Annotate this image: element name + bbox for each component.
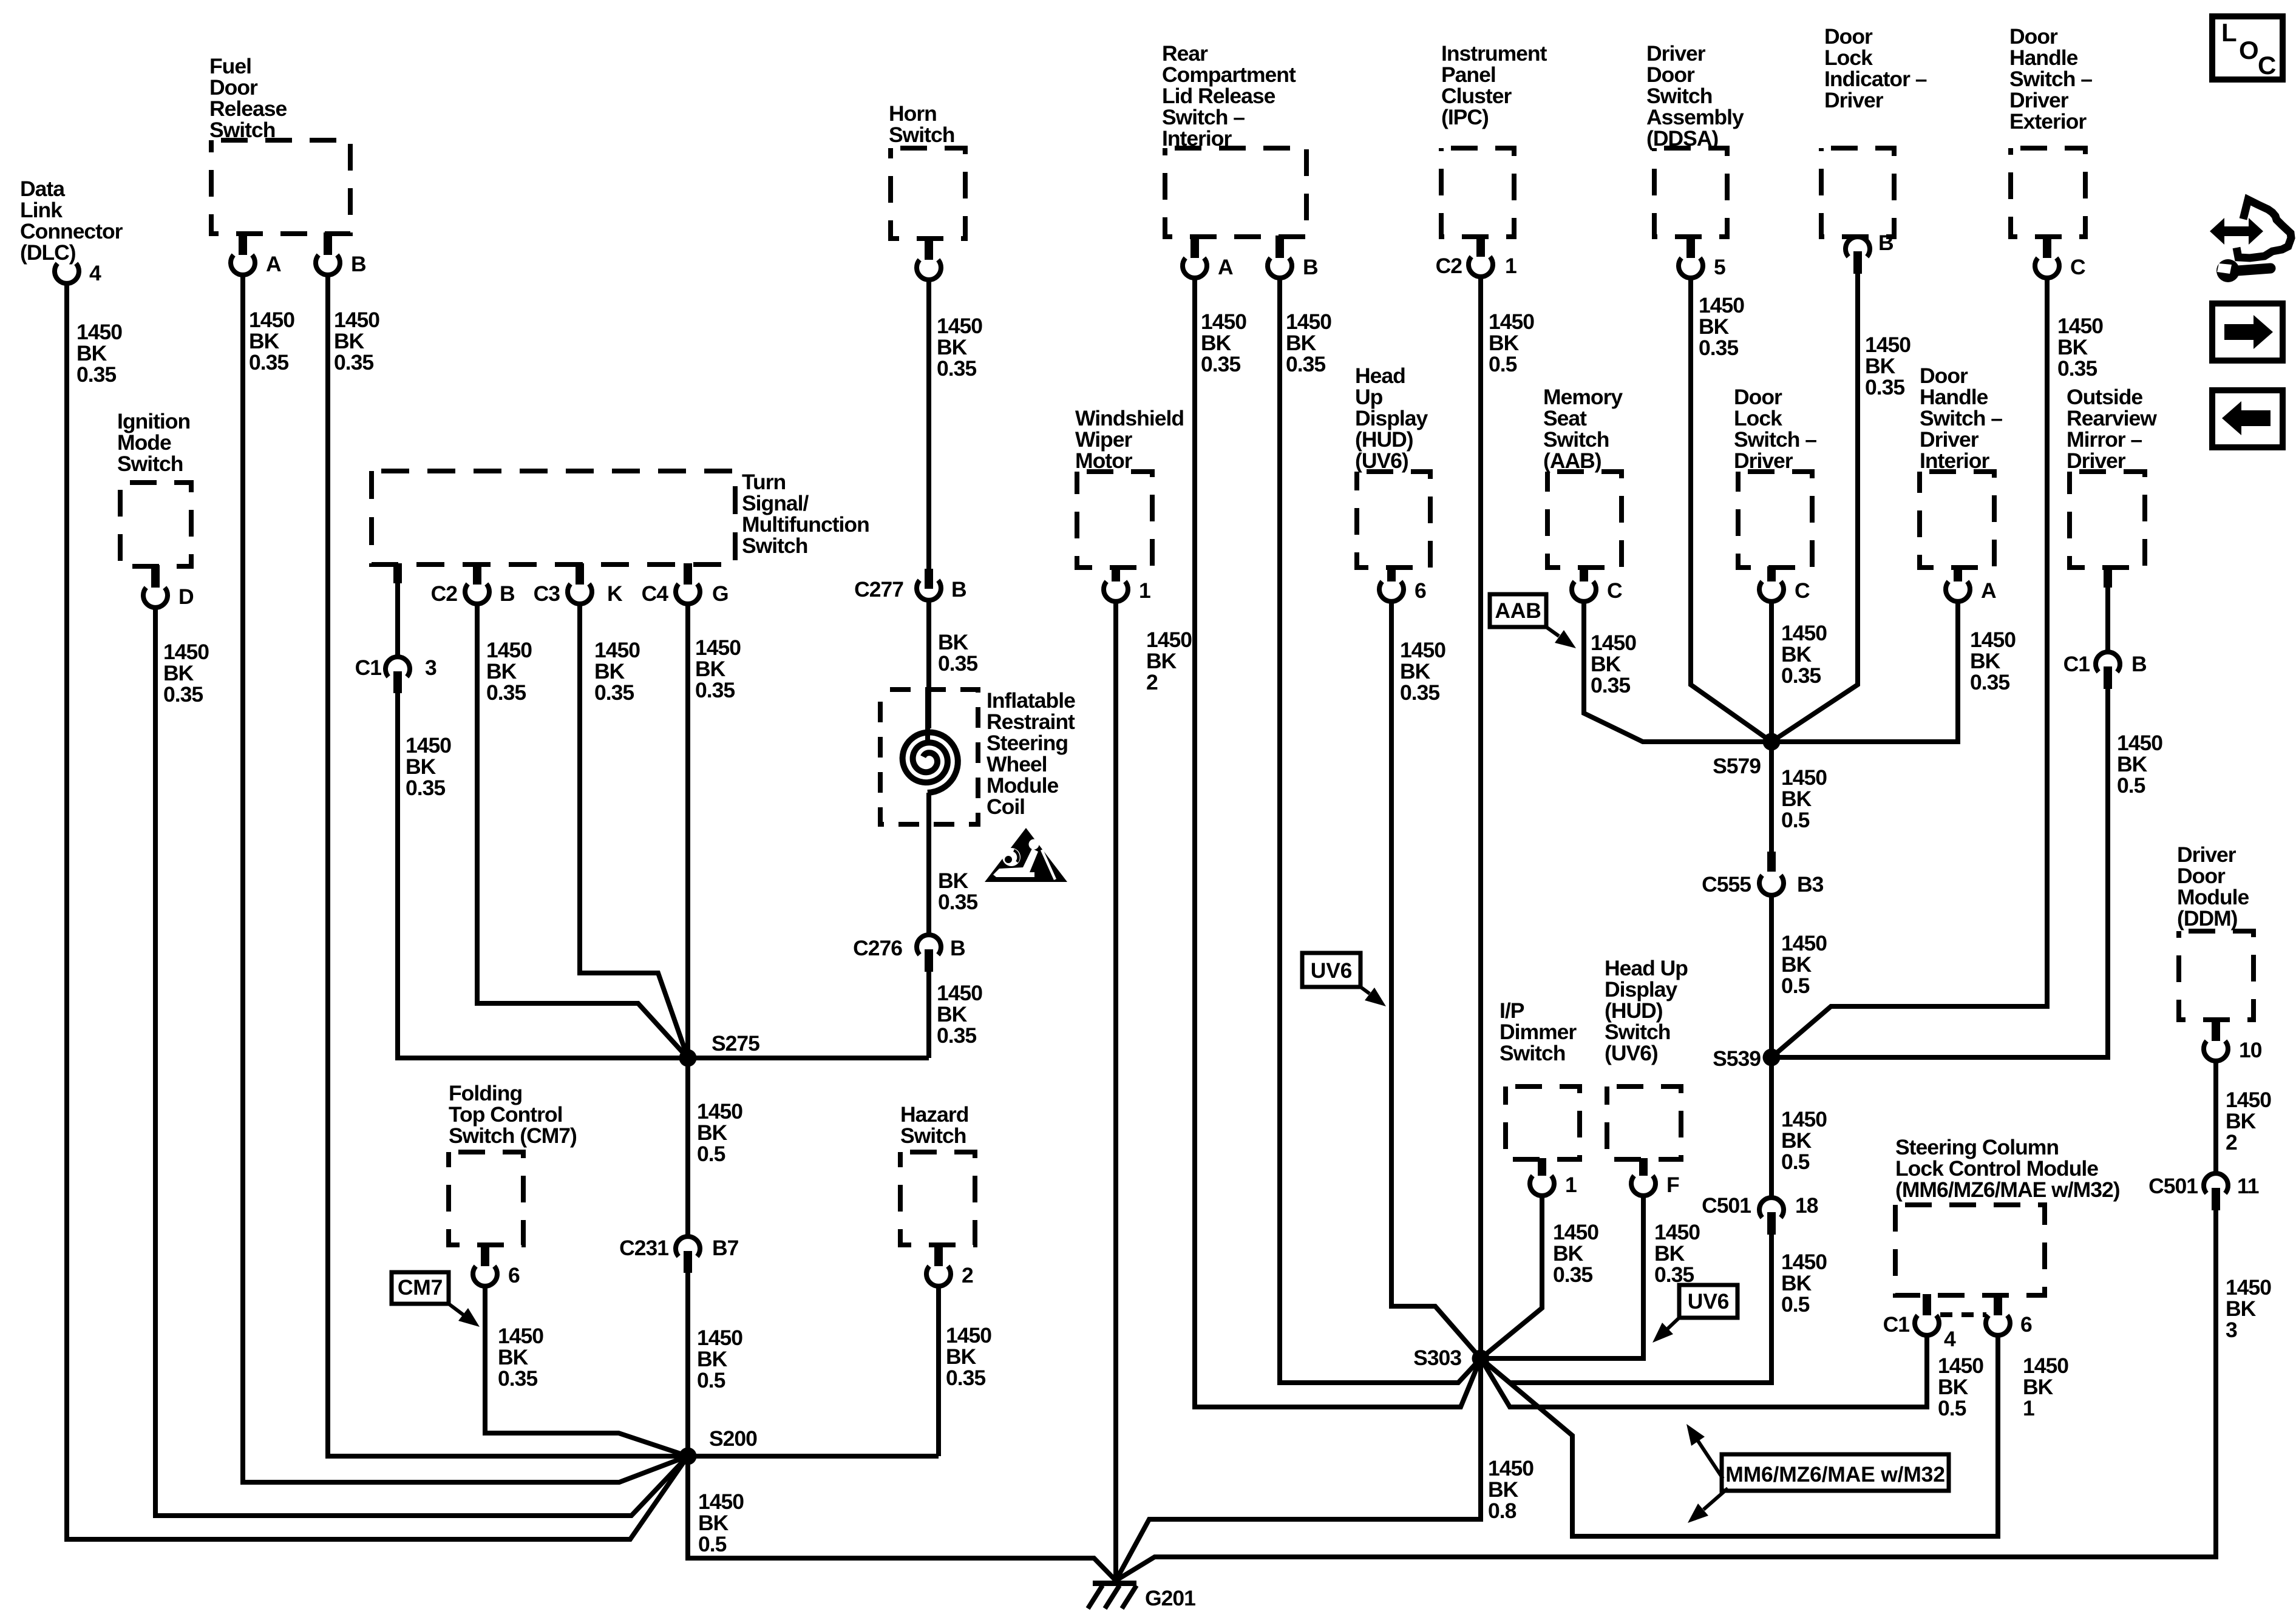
- component label: Fuel Door Release Switch: [209, 54, 287, 142]
- connector C555 stub: [1767, 852, 1776, 872]
- wire label BK 0.35 (coil-C276): [938, 869, 977, 914]
- Turn Signal pin B stub: [473, 563, 481, 585]
- component box: Door Lock Switch - Driver: [1738, 472, 1812, 568]
- svg-text:B: B: [351, 252, 366, 276]
- svg-text:S200: S200: [709, 1426, 757, 1451]
- wire label 1450 BK 0.35 (DLS C): [1781, 621, 1827, 688]
- splice label S539: [1713, 1046, 1761, 1071]
- IPC pin 1 cup: [1469, 257, 1493, 277]
- svg-text:B: B: [951, 577, 966, 602]
- wire label 1450 BK 0.5 (S539-C501): [1781, 1107, 1827, 1174]
- Rear Compartment switch pin B stub: [1275, 236, 1284, 258]
- svg-text:2: 2: [962, 1263, 973, 1287]
- pin B3 label: [1797, 872, 1824, 897]
- icon: right arrow box: [2212, 303, 2283, 361]
- wire DHI-A to S579, 1450 BK 0.35: [1771, 601, 1958, 742]
- svg-text:AAB: AAB: [1495, 598, 1541, 623]
- component label: Turn Signal/Multifunction Switch: [742, 470, 869, 558]
- svg-text:MM6/MZ6/MAE w/M32: MM6/MZ6/MAE w/M32: [1725, 1462, 1945, 1486]
- connector label C2 (IPC): [1436, 254, 1462, 278]
- connector label C3: [534, 581, 560, 606]
- splice label S275: [712, 1031, 759, 1056]
- Ignition Mode Switch pin D label: [178, 585, 194, 609]
- wire AAB-C to S579, 1450 BK 0.35: [1584, 601, 1771, 742]
- Folding Top Control Switch pin 6 label: [508, 1263, 520, 1287]
- splice label S303: [1413, 1346, 1461, 1370]
- wire C501-18 to S303, 1450 BK 0.5: [1481, 1233, 1771, 1383]
- pin 3 label: [425, 656, 436, 680]
- wire label 1450 BK 0.35 (AAB C): [1591, 631, 1636, 697]
- boxed label MM6/MZ6/MAE w/M32: [1722, 1454, 1949, 1491]
- svg-text:F: F: [1666, 1173, 1679, 1197]
- connector label C501: [1702, 1193, 1751, 1218]
- svg-text:CM7: CM7: [398, 1275, 443, 1300]
- svg-text:C1: C1: [355, 656, 382, 680]
- svg-text:1: 1: [1139, 578, 1150, 603]
- wire label 1450 BK 0.35 (C276): [937, 981, 982, 1048]
- component label: Data Link Connector (DLC): [20, 177, 123, 265]
- DDM pin 10 stub: [2212, 1019, 2220, 1041]
- connector label C231: [619, 1236, 668, 1260]
- wire label 1450 BK 0.35 (HUD 6): [1400, 638, 1445, 705]
- connector C1 pin3 stub: [393, 671, 402, 693]
- pin 4 label: [89, 261, 101, 285]
- Door Handle Exterior pin C label: [2070, 255, 2085, 279]
- component box: Ignition Mode Switch: [120, 483, 191, 566]
- wire DDSA-5 to S579, 1450 BK 0.35: [1691, 276, 1771, 742]
- wire label 1450 BK 0.35 (RearComp B): [1286, 310, 1331, 376]
- svg-text:5: 5: [1714, 255, 1725, 279]
- svg-text:A: A: [266, 252, 281, 276]
- component label: Windshield Wiper Motor: [1075, 406, 1184, 473]
- svg-text:S303: S303: [1413, 1346, 1461, 1370]
- svg-text:6: 6: [1415, 578, 1426, 603]
- wire DLS-C to S579, 1450 BK 0.35: [1769, 601, 1774, 742]
- component label: Door Handle Switch - Driver Exterior: [2009, 24, 2092, 134]
- component box: Steering Column Lock Control Module: [1895, 1205, 2045, 1295]
- boxed label UV6 (upper): [1302, 953, 1360, 987]
- svg-text:S579: S579: [1713, 754, 1761, 778]
- wire S275 to C276 branch: [688, 1056, 929, 1060]
- svg-text:C: C: [1607, 578, 1622, 603]
- wire coil to C276, BK 0.35: [926, 793, 931, 935]
- connector C501 pin 18 (cap): [1759, 1198, 1784, 1218]
- wire label 1450 BK 0.5 (C555-S539): [1781, 931, 1827, 998]
- Door Handle Interior pin A cup: [1946, 581, 1970, 602]
- component label: Memory Seat Switch (AAB): [1543, 385, 1623, 473]
- svg-text:C3: C3: [534, 581, 560, 606]
- wire Horn to C277, 1450 BK 0.35: [926, 278, 931, 571]
- wire label 1450 BK 0.5 (ORM): [2117, 731, 2162, 798]
- svg-text:B: B: [2131, 652, 2147, 676]
- component label: Driver Door Switch Assembly (DDSA): [1646, 41, 1744, 151]
- airbag warning triangle: [985, 828, 1067, 882]
- Folding Top Control Switch pin 6 stub: [481, 1244, 489, 1266]
- Fuel Door Release Switch pin A cup: [231, 255, 255, 275]
- component label: Inflatable Restraint Steering Wheel Module Coil: [987, 688, 1075, 819]
- I/P Dimmer Switch pin 1 stub: [1538, 1158, 1546, 1176]
- ground label G201: [1145, 1586, 1195, 1610]
- splice S539: [1763, 1049, 1781, 1066]
- wire label BK 0.35 (C277-coil): [938, 630, 977, 676]
- connector C555 pin B3 (cup): [1759, 875, 1784, 895]
- component box: Driver Door Module (DDM): [2179, 931, 2254, 1020]
- component label: Head Up Display (HUD) Switch (UV6): [1605, 956, 1688, 1065]
- SCLCM pin 6 cup: [1986, 1315, 2010, 1335]
- arrow AAB to wire: [1546, 627, 1576, 648]
- component box: Outside Rearview Mirror - Driver: [2070, 472, 2145, 568]
- svg-text:4: 4: [89, 261, 101, 285]
- Memory Seat Switch pin C label: [1607, 578, 1622, 603]
- component label: Outside Rearview Mirror - Driver: [2067, 385, 2157, 473]
- DDM pin 10 label: [2239, 1038, 2262, 1062]
- svg-text:C231: C231: [619, 1236, 668, 1260]
- svg-text:B3: B3: [1797, 872, 1824, 897]
- component box: Windshield Wiper Motor: [1077, 472, 1152, 568]
- HUD Switch pin F cup: [1631, 1176, 1656, 1196]
- Turn Signal pin K cup: [568, 584, 592, 604]
- splice S579: [1763, 733, 1781, 751]
- component label: Hazard Switch: [900, 1102, 968, 1148]
- Horn Switch pin stub: [925, 237, 933, 260]
- component box: Door Lock Indicator: [1821, 148, 1894, 237]
- component label: I/P Dimmer Switch: [1500, 998, 1577, 1065]
- Rear Compartment switch pin B label: [1303, 255, 1318, 279]
- splice S275: [679, 1049, 697, 1067]
- Memory Seat Switch pin C cup: [1572, 581, 1596, 602]
- connector C277 stub: [925, 569, 933, 589]
- component box: Folding Top Control Switch: [449, 1152, 523, 1245]
- component box: Memory Seat Switch: [1547, 472, 1622, 568]
- arrow UV6 to wire (lower): [1652, 1318, 1679, 1343]
- Rear Compartment switch pin A cup: [1183, 258, 1207, 278]
- SCLCM pin 4 stub: [1923, 1294, 1931, 1315]
- Fuel Door Release Switch pin B stub: [324, 232, 332, 255]
- pin 18 label: [1795, 1193, 1818, 1218]
- wire label 1450 BK 0.35 (Hazard 2): [946, 1323, 991, 1390]
- Windshield Wiper Motor pin 1 cup: [1104, 581, 1128, 602]
- wire Hazard-2 to S200, 1450 BK 0.35: [936, 1284, 941, 1456]
- wire label 1450 BK 0.35 (DHE C): [2057, 314, 2103, 381]
- Rear Compartment switch pin B cup: [1268, 258, 1292, 278]
- wire Fuel A to S200, 1450 BK 0.35: [243, 273, 688, 1482]
- wire label 1450 BK 0.35 (Ignition D): [163, 640, 209, 707]
- wire label 1450 BK 2 (WWM): [1146, 628, 1192, 694]
- arrow UV6 to HUD wire: [1360, 987, 1386, 1006]
- svg-text:A: A: [1218, 255, 1233, 279]
- svg-text:3: 3: [425, 656, 436, 680]
- connector C231 pin B7 (cap): [676, 1236, 700, 1256]
- wire label 1450 BK 3 (C501-11): [2226, 1275, 2271, 1342]
- Door Lock Switch pin C label: [1795, 578, 1810, 603]
- I/P Dimmer Switch pin 1 cup: [1530, 1176, 1554, 1196]
- svg-text:B: B: [500, 581, 515, 606]
- wire Dimmer-1 to S303, 1450 BK 0.35: [1481, 1195, 1542, 1358]
- wire SCLCM-6 to S303, 1450 BK 1: [1481, 1335, 1998, 1536]
- coil spiral symbol: [903, 732, 958, 793]
- Door Handle Interior pin A stub: [1954, 566, 1962, 581]
- component box: Fuel Door Release Switch: [211, 140, 350, 234]
- svg-text:6: 6: [508, 1263, 520, 1287]
- component box: IPC: [1441, 148, 1514, 237]
- component box: coil: [880, 690, 978, 824]
- wire label 1450 BK 0.35 (RearComp A): [1201, 310, 1246, 376]
- wire label 1450 BK 0.35 (CM7-6): [498, 1324, 543, 1391]
- svg-text:C501: C501: [2148, 1174, 2198, 1198]
- Fuel Door Release Switch pin A stub: [239, 232, 247, 255]
- connector C276 pin B (cap): [917, 935, 941, 955]
- Windshield Wiper Motor pin 1 stub: [1112, 566, 1120, 581]
- component label: Steering Column Lock Control Module (MM6/MZ6/MAE w/M32): [1895, 1135, 2120, 1202]
- wire Turn Signal pin3 to C1 connector: [395, 581, 400, 657]
- boxed label AAB: [1490, 594, 1546, 627]
- HUD Switch pin F stub: [1639, 1158, 1648, 1176]
- wire label 1450 BK 0.5 (C501-18): [1781, 1250, 1827, 1317]
- wire label 1450 BK 0.35 (HUD F): [1654, 1220, 1700, 1287]
- Turn Signal pin G cup: [676, 584, 700, 604]
- component box: Turn Signal/Multifunction Switch: [372, 471, 735, 564]
- Folding Top Control Switch pin 6 cup: [473, 1266, 497, 1286]
- wire ORM C1-B to S539, 1450 BK 0.5: [1771, 688, 2108, 1057]
- wire label 1450 BK 0.35 (C1-3): [406, 733, 451, 800]
- wire C501-11 to G201, 1450 BK 3: [1116, 1209, 2216, 1581]
- wire RearComp B to S303, 1450 BK 0.35: [1280, 276, 1481, 1383]
- svg-text:C1: C1: [1883, 1312, 1910, 1337]
- svg-text:O: O: [2239, 36, 2259, 64]
- component box: I/P Dimmer Switch: [1506, 1086, 1580, 1159]
- DDSA pin 5 stub: [1686, 236, 1695, 258]
- wire label 1450 BK 0.35 (C4-G): [695, 636, 741, 702]
- component label: Head Up Display (HUD)(UV6): [1355, 364, 1428, 473]
- Horn Switch pin cup: [917, 260, 941, 280]
- icon: LOC box: [2212, 16, 2283, 80]
- splice S200: [679, 1448, 697, 1465]
- svg-text:L: L: [2221, 18, 2237, 47]
- HUD pin 6 cup: [1379, 581, 1404, 602]
- svg-text:C2: C2: [1436, 254, 1462, 278]
- ground G201 symbol: [1088, 1581, 1136, 1609]
- component box: Horn Switch: [891, 148, 965, 239]
- HUD pin 6 stub: [1387, 566, 1396, 581]
- connector C276 stub: [925, 949, 933, 972]
- wire C1-3 to S275, 1450 BK 0.35: [398, 692, 688, 1058]
- arrow MM6 label to SCLCM-6 wire: [1688, 1488, 1728, 1523]
- wire S200 to G201, 1450 BK 0.5: [688, 1465, 1116, 1581]
- arrow CM7 to wire: [449, 1304, 480, 1327]
- connector label C277: [854, 577, 903, 602]
- Fuel Door Release Switch pin A label: [266, 252, 281, 276]
- Hazard Switch pin 2 cup: [926, 1266, 951, 1286]
- pin 11 label: [2237, 1174, 2259, 1198]
- wire S303 to G201, 1450 BK 0.8: [1116, 1367, 1481, 1581]
- pin B label (ORM): [2131, 652, 2147, 676]
- connector label C555: [1702, 872, 1751, 897]
- connector C231 stub: [684, 1251, 692, 1273]
- Hazard Switch pin 2 stub: [934, 1244, 943, 1266]
- svg-text:C: C: [2070, 255, 2085, 279]
- wire RearComp A to S303, 1450 BK 0.35: [1195, 276, 1481, 1407]
- component box: Door Handle Switch - Driver Interior: [1920, 472, 1994, 568]
- wire label 1450 BK 0.35 (DLC): [76, 320, 122, 387]
- svg-text:A: A: [1981, 578, 1996, 603]
- connector C1 pin B (cap): [2096, 652, 2120, 672]
- component box: HUD Switch (UV6): [1607, 1086, 1681, 1159]
- wire label 1450 BK 1 (SCLCM 6): [2023, 1354, 2068, 1420]
- svg-text:UV6: UV6: [1311, 958, 1352, 983]
- ORM pin stub: [2104, 566, 2112, 588]
- wire Fuel B to S200, 1450 BK 0.35: [328, 273, 688, 1456]
- boxed label UV6 (lower): [1679, 1285, 1737, 1318]
- component label: Folding Top Control Switch (CM7): [449, 1081, 577, 1148]
- svg-text:C4: C4: [642, 581, 669, 606]
- wire label 1450 BK 0.5 (S579-C555): [1781, 765, 1827, 832]
- wire label 1450 BK 0.35 (DHI A): [1970, 628, 2016, 694]
- svg-text:S539: S539: [1713, 1046, 1761, 1071]
- svg-text:10: 10: [2239, 1038, 2262, 1062]
- wire CM7-6 to S200, 1450 BK 0.35: [485, 1284, 688, 1456]
- svg-text:B7: B7: [712, 1236, 739, 1260]
- pin B7 label: [712, 1236, 739, 1260]
- svg-text:G201: G201: [1145, 1586, 1195, 1610]
- DDM pin 10 cup: [2204, 1041, 2228, 1061]
- wire label 1450 BK 2 (DDM 10): [2226, 1088, 2271, 1154]
- wire S579 to C555, 1450 BK 0.5: [1769, 750, 1774, 852]
- pin 6 label (SCLCM): [2020, 1312, 2032, 1337]
- component label: Door Handle Switch - Driver Interior: [1920, 364, 2002, 473]
- svg-text:C277: C277: [854, 577, 903, 602]
- wire label 1450 BK 0.35 (DLI B): [1865, 333, 1911, 399]
- component box: HUD (UV6): [1357, 472, 1430, 568]
- svg-text:K: K: [607, 581, 623, 606]
- svg-text:C2: C2: [431, 581, 458, 606]
- svg-text:18: 18: [1795, 1193, 1818, 1218]
- Turn Signal pin K stub: [576, 563, 584, 585]
- component box: Rear Compartment Lid Release Switch: [1165, 148, 1306, 237]
- svg-text:D: D: [178, 585, 194, 609]
- pin 1 label (IPC): [1505, 254, 1517, 278]
- connector C1 pin 3 (cap): [385, 657, 410, 677]
- boxed label CM7: [392, 1272, 449, 1304]
- component box: DDSA: [1654, 148, 1727, 237]
- HUD Switch pin F label: [1666, 1173, 1679, 1197]
- wire label 1450 BK 0.35 (C2-B): [486, 638, 532, 705]
- Turn Signal pin B cup: [465, 584, 489, 604]
- Hazard Switch pin 2 label: [962, 1263, 973, 1287]
- component label: Horn Switch: [889, 101, 954, 147]
- connector label C276: [853, 936, 902, 960]
- svg-text:B: B: [1878, 231, 1894, 255]
- Rear Compartment switch pin A stub: [1190, 236, 1199, 258]
- connector C501 pin 11 (cap): [2204, 1173, 2228, 1193]
- component box: Hazard Switch: [900, 1152, 975, 1245]
- Fuel Door Release Switch pin B label: [351, 252, 366, 276]
- Ignition Mode Switch pin D stub: [151, 565, 160, 588]
- wire C555 to S539, 1450 BK 0.5: [1769, 895, 1774, 1057]
- wire into coil top: [925, 690, 930, 744]
- connector DLC pin 4 cup: [55, 263, 79, 283]
- wire HUD-6 to S303, 1450 BK 0.35: [1391, 601, 1481, 1358]
- pin G label: [712, 581, 729, 606]
- I/P Dimmer Switch pin 1 label: [1565, 1173, 1577, 1197]
- Door Lock Switch pin C cup: [1759, 581, 1784, 602]
- component label: Ignition Mode Switch: [117, 409, 190, 476]
- Door Lock Indicator pin B stub: [1853, 251, 1862, 274]
- Ignition Mode Switch pin D cup: [143, 588, 168, 608]
- wire DDM-10 to C501-11, 1450 BK 2: [2213, 1059, 2218, 1173]
- svg-text:G: G: [712, 581, 729, 606]
- splice label S579: [1713, 754, 1761, 778]
- connector label C4: [642, 581, 669, 606]
- connector label C1 (SCLCM): [1883, 1312, 1910, 1337]
- connector C501-18 stub: [1767, 1212, 1776, 1235]
- Door Handle Interior pin A label: [1981, 578, 1996, 603]
- svg-text:B: B: [950, 936, 965, 960]
- wire C277 to coil, BK 0.35: [926, 600, 931, 728]
- wire S200 to Hazard pin 2: [688, 1454, 939, 1459]
- Windshield Wiper Motor pin 1 label: [1139, 578, 1150, 603]
- wire C3-K to S275, 1450 BK 0.35: [580, 604, 688, 1058]
- svg-text:B: B: [1303, 255, 1318, 279]
- pin B label (DLI): [1878, 231, 1894, 255]
- wire DHE-C to S539, 1450 BK 0.35: [1771, 276, 2047, 1057]
- wire label 1450 BK 0.35 (Fuel B): [334, 308, 379, 375]
- connector Door Lock Indicator pin B (cap): [1846, 237, 1870, 257]
- wire label 1450 BK 0.35 (DDSA 5): [1699, 293, 1744, 360]
- HUD pin 6 label: [1415, 578, 1426, 603]
- svg-text:4: 4: [1944, 1327, 1956, 1351]
- wire C276 to S275 line, 1450 BK 0.35: [926, 971, 931, 1058]
- connector C277 pin B (cup): [917, 580, 941, 600]
- wire label 1450 BK 0.5 (IPC): [1489, 310, 1534, 376]
- Turn Signal pin 3 stub at box: [393, 563, 402, 583]
- pin 4 label (SCLCM): [1944, 1327, 1956, 1351]
- SCLCM pin 6 stub: [1994, 1294, 2002, 1315]
- wire C2-B to S275, 1450 BK 0.35: [477, 604, 688, 1058]
- connector C1-B stub: [2104, 666, 2112, 689]
- svg-text:6: 6: [2020, 1312, 2032, 1337]
- wire label 1450 BK 0.35 (C3-K): [594, 638, 640, 705]
- pin B label: [950, 936, 965, 960]
- Turn Signal pin G stub: [684, 563, 692, 585]
- connector label C501 (11): [2148, 1174, 2198, 1198]
- connector label C1 (ORM): [2063, 652, 2090, 676]
- svg-text:C1: C1: [2063, 652, 2090, 676]
- wire label 1450 BK 0.5 (SCLCM 4): [1938, 1354, 1983, 1420]
- Door Handle Exterior pin C stub: [2043, 236, 2051, 258]
- wire C231 to S200, 1450 BK 0.5: [685, 1272, 690, 1456]
- connector C501-11 stub: [2212, 1188, 2220, 1210]
- pin B label: [500, 581, 515, 606]
- wire ORM to C1 connector: [2105, 586, 2110, 654]
- component label: Instrument Panel Cluster (IPC): [1441, 41, 1547, 129]
- wire Ignition D to S200, 1450 BK 0.35: [155, 606, 688, 1516]
- svg-text:C: C: [2258, 51, 2276, 80]
- wire label 1450 BK 0.5 (S200-G201): [698, 1490, 744, 1556]
- wire label 1450 BK 0.5 (C231-S200): [697, 1326, 742, 1392]
- wire label 1450 BK 0.35 (Fuel A): [249, 308, 294, 375]
- Door Handle Exterior pin C cup: [2035, 258, 2059, 278]
- Fuel Door Release Switch pin B cup: [316, 255, 340, 275]
- wire S275 to C231, 1450 BK 0.5: [685, 1066, 690, 1236]
- arrow MM6 label to SCLCM-4 wire: [1686, 1424, 1723, 1479]
- wire label 1450 BK 0.35 (Horn): [937, 314, 982, 381]
- wire S539 to C501-18, 1450 BK 0.5: [1769, 1066, 1774, 1198]
- wire WWM-1 to G201, 1450 BK 2: [1113, 601, 1118, 1581]
- component label: Door Lock Indicator - Driver: [1824, 24, 1927, 112]
- svg-text:HazardSwitch: HazardSwitch: [900, 1102, 968, 1148]
- pin K label: [607, 581, 623, 606]
- svg-text:C501: C501: [1702, 1193, 1751, 1218]
